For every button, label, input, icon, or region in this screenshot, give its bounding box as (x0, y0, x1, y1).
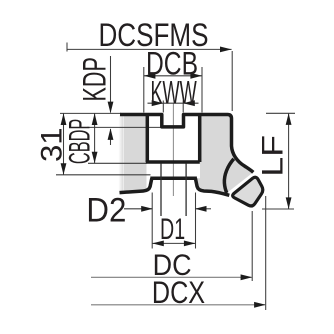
svg-text:D1: D1 (160, 213, 185, 246)
svg-text:LF: LF (255, 135, 288, 177)
svg-text:KDP: KDP (76, 57, 113, 101)
svg-text:CBDP: CBDP (63, 119, 96, 164)
svg-text:31: 31 (35, 127, 68, 162)
svg-text:DCX: DCX (152, 275, 205, 310)
svg-text:KWW: KWW (150, 74, 196, 111)
svg-text:D2: D2 (86, 190, 126, 229)
